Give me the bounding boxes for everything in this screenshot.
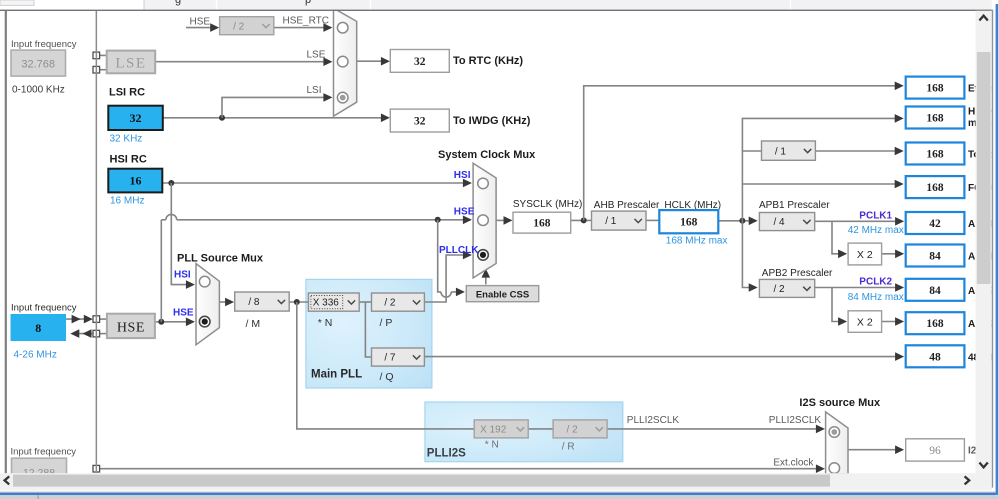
PLLI2S panel	[425, 402, 623, 462]
oscillator LSI RC 32	[108, 106, 163, 130]
wire HSE branch to Enable CSS with hop	[438, 220, 441, 292]
wire LSE pin connections	[99, 54, 106, 56]
svg-text:4-26 MHz: 4-26 MHz	[14, 350, 57, 361]
wire HCLK riser to AHB bus clock	[742, 118, 899, 220]
svg-text:LSE: LSE	[115, 55, 146, 71]
svg-text:PLLI2SCLK: PLLI2SCLK	[627, 415, 680, 426]
wire PLLQ 48MHz clock	[424, 356, 900, 358]
box LSE input frequency 32.768	[11, 50, 66, 76]
oscillator HSE	[107, 314, 155, 338]
pin connector LSE bottom	[93, 66, 100, 73]
svg-text:LSI RC: LSI RC	[109, 87, 145, 99]
divider /P	[372, 293, 425, 311]
box I2S clock value 96	[906, 439, 965, 461]
svg-text:32: 32	[130, 111, 142, 125]
wire HSE_RTC divider to RTC mux	[274, 27, 328, 29]
wire AHB prescaler to HCLK	[646, 219, 659, 221]
node HCLK branch	[739, 218, 745, 224]
divider AHB prescaler /1	[592, 211, 647, 230]
divider APB2 prescaler /2	[759, 279, 814, 297]
svg-text:/ Q: / Q	[380, 371, 394, 383]
svg-text:HSI: HSI	[454, 170, 471, 181]
box AHB bus clock value 168	[906, 107, 965, 129]
svg-text:HSI: HSI	[174, 270, 191, 281]
wire PCLK2 to APB2 timer multiplier	[832, 288, 843, 322]
svg-text:84: 84	[929, 285, 941, 297]
svg-text:/ R: / R	[562, 441, 575, 452]
wire PLLCLK to system clock mux	[424, 255, 466, 302]
wire LSI riser to RTC mux	[222, 97, 328, 117]
pin connector Ext.clock	[93, 465, 100, 472]
box APB1 periph clock value 42	[906, 212, 965, 234]
node PLL N input branch	[294, 299, 300, 305]
wire Enable CSS to mux	[485, 273, 487, 285]
wire system clock mux output	[496, 219, 508, 221]
wire HSE stub to HSE_RTC divider	[186, 27, 215, 29]
radio HSE_RTC input	[337, 22, 348, 33]
chrome: right window edge	[992, 0, 999, 499]
box To IWDG value 32	[390, 109, 449, 132]
svg-text:/ M: / M	[246, 318, 261, 330]
wire HSI riser to PLL source mux	[171, 183, 190, 285]
divider PLLI2S /R	[553, 420, 607, 438]
svg-text:APB2 Prescaler: APB2 Prescaler	[762, 268, 833, 279]
radio SYS PLLCLK input selected	[478, 250, 489, 261]
svg-text:42: 42	[929, 218, 941, 230]
svg-text:Input frequency: Input frequency	[11, 302, 77, 313]
svg-text:84 MHz max: 84 MHz max	[848, 292, 904, 303]
box Cortex timer clock value 168	[906, 143, 965, 165]
divider APB1 prescaler /4	[759, 213, 814, 231]
wire PLL source mux output	[219, 301, 230, 303]
svg-text:PLL Source Mux: PLL Source Mux	[177, 252, 264, 264]
oscillator LSE	[107, 51, 156, 74]
svg-text:AHB Prescaler: AHB Prescaler	[594, 200, 660, 211]
wire SYSCLK to Ethernet PTP	[584, 86, 900, 221]
svg-text:Input frequency: Input frequency	[11, 447, 77, 458]
radio I2S PLLI2SCLK input selected	[829, 427, 840, 438]
svg-text:168: 168	[533, 218, 551, 230]
box APB2 periph clock value 84	[906, 279, 965, 301]
svg-text:32: 32	[414, 116, 426, 128]
svg-text:Input frequency: Input frequency	[11, 39, 77, 50]
svg-text:Main PLL: Main PLL	[311, 368, 362, 380]
divider /Q	[372, 348, 425, 366]
multiplier PLLI2S xN X192	[474, 420, 528, 438]
svg-text:32 KHz: 32 KHz	[110, 134, 143, 145]
wire SYSCLK to AHB prescaler	[571, 219, 592, 221]
wire APB1 timer multiplier output	[882, 253, 900, 255]
wire HSE input frequency arrows	[66, 318, 84, 320]
svg-text:Ext.clock: Ext.clock	[773, 457, 814, 468]
wire RTC mux output	[357, 60, 386, 62]
box SYSCLK value 168	[513, 212, 571, 233]
box APB2 timer clock value 168	[906, 312, 965, 334]
box APB1 timer clock value 84	[906, 245, 965, 267]
svg-text:16: 16	[130, 174, 142, 188]
svg-text:X 336: X 336	[313, 298, 340, 309]
chrome: horizontal scrollbar	[0, 473, 999, 487]
wire APB2 prescaler output PCLK2	[815, 287, 900, 289]
svg-text:84: 84	[929, 251, 941, 263]
svg-text:/ 1: / 1	[775, 146, 787, 157]
multiplier APB1 timers X2	[848, 243, 882, 265]
svg-text:HSI RC: HSI RC	[110, 154, 147, 166]
svg-text:8: 8	[35, 321, 41, 335]
svg-text:/ P: / P	[380, 317, 393, 329]
multiplier APB2 timers X2	[848, 311, 882, 333]
wire LSE to RTC mux	[155, 61, 328, 63]
chrome: vertical scrollbar	[976, 11, 992, 473]
svg-text:48: 48	[929, 351, 941, 363]
svg-text:16 MHz: 16 MHz	[110, 196, 144, 207]
svg-text:g: g	[175, 0, 181, 6]
svg-text:168: 168	[926, 83, 944, 95]
mux PLL source mux	[196, 264, 219, 345]
wire HCLK output	[719, 220, 754, 222]
svg-text:PCLK1: PCLK1	[859, 210, 892, 221]
wire /M output	[289, 301, 308, 303]
wire APB2 timer multiplier output	[882, 321, 900, 323]
wire HSE to system clock mux with hop	[161, 219, 166, 221]
node HSE branch	[158, 319, 164, 325]
svg-text:PLLI2SCLK: PLLI2SCLK	[769, 415, 822, 426]
svg-text:/ 2: / 2	[773, 284, 785, 295]
svg-text:To RTC (KHz): To RTC (KHz)	[453, 55, 523, 67]
svg-text:p: p	[305, 0, 311, 6]
wire HCLK riser to APB2 prescaler	[742, 221, 753, 288]
svg-text:/ 8: / 8	[248, 297, 260, 308]
divider /M	[235, 292, 290, 311]
node LSI branch	[219, 115, 225, 121]
box HSE input frequency 8	[11, 315, 66, 341]
wire Ext.clock to I2S mux	[99, 468, 820, 470]
wire I2S mux output	[848, 449, 900, 451]
box HCLK value 168	[659, 210, 718, 233]
svg-text:96: 96	[929, 445, 941, 457]
pin connector HSE top	[93, 316, 100, 323]
wire LSI to IWDG	[163, 117, 386, 119]
svg-text:HSE_RTC: HSE_RTC	[283, 16, 330, 27]
wire HCLK to FCLK	[742, 183, 899, 185]
svg-text:* N: * N	[318, 317, 333, 329]
svg-text:HSE: HSE	[117, 321, 145, 336]
svg-text:0-1000 KHz: 0-1000 KHz	[12, 85, 65, 96]
radio PLL HSE input selected	[199, 316, 210, 327]
divider HSE_RTC /2	[220, 17, 274, 35]
chrome: viewport borders	[0, 10, 993, 11]
box To RTC value 32	[390, 50, 449, 73]
svg-text:LSI: LSI	[307, 85, 322, 96]
box Ethernet PTP clock value 168	[906, 77, 965, 99]
wire PLLI2SCLK to I2S mux	[607, 428, 821, 430]
Main PLL panel	[306, 279, 432, 388]
radio LSE input	[337, 56, 348, 67]
svg-text:42 MHz max: 42 MHz max	[848, 225, 904, 236]
svg-text:/ 2: / 2	[567, 425, 579, 436]
button Enable CSS	[466, 286, 538, 302]
pin connector LSE top	[93, 52, 100, 59]
svg-text:/ 2: / 2	[233, 21, 245, 32]
chrome: bottom strip	[0, 488, 992, 491]
svg-text:32.768: 32.768	[21, 59, 55, 71]
svg-text:SYSCLK (MHz): SYSCLK (MHz)	[513, 199, 582, 210]
wire cortex divider to cortex timer	[815, 150, 899, 152]
box I2S input frequency 12.288	[12, 458, 67, 475]
svg-text:LSE: LSE	[307, 50, 326, 61]
wire PLLI2S N to R divider	[528, 428, 553, 430]
radio I2S Ext.clock input	[829, 463, 840, 474]
svg-text:X 2: X 2	[857, 249, 873, 261]
oscillator HSI RC 16	[108, 169, 162, 193]
multiplier *N X336	[308, 293, 359, 311]
node HSI branch	[168, 180, 174, 186]
svg-text:HSE: HSE	[454, 207, 475, 218]
svg-text:PLLCLK: PLLCLK	[439, 245, 479, 256]
wire N to Q divider	[365, 302, 371, 357]
svg-text:/ 1: / 1	[605, 216, 617, 227]
svg-text:PCLK2: PCLK2	[859, 277, 892, 288]
svg-text:System Clock Mux: System Clock Mux	[438, 149, 536, 161]
chrome: tab strip	[0, 0, 999, 10]
pin connector HSE bottom	[93, 330, 100, 337]
svg-text:Enable CSS: Enable CSS	[476, 289, 529, 300]
svg-text:/ 4: / 4	[773, 217, 785, 228]
svg-text:HSE: HSE	[190, 16, 211, 27]
svg-text:/ 2: / 2	[384, 298, 396, 309]
divider cortex /1	[762, 141, 816, 160]
svg-text:168: 168	[926, 182, 944, 194]
radio SYS HSE input	[478, 215, 489, 226]
node SYSCLK branch	[581, 217, 587, 223]
svg-text:I2S source Mux: I2S source Mux	[799, 397, 881, 409]
svg-text:168: 168	[680, 217, 698, 229]
svg-text:* N: * N	[485, 440, 499, 451]
svg-text:HSE: HSE	[173, 308, 194, 319]
svg-text:APB1 Prescaler: APB1 Prescaler	[759, 200, 830, 211]
radio LSI input selected	[337, 92, 348, 103]
radio PLL HSI input	[199, 276, 210, 287]
wire PCLK1 to APB1 timer multiplier	[832, 221, 843, 254]
wire APB1 prescaler output PCLK1	[815, 220, 900, 222]
wire HSE riser	[160, 220, 162, 322]
svg-text:168: 168	[926, 113, 944, 125]
wire HSI to system clock mux	[163, 182, 467, 184]
wire HSE to PLL source mux	[155, 321, 191, 323]
radio SYS HSI input	[478, 178, 489, 189]
svg-text:PLLI2S: PLLI2S	[427, 447, 466, 459]
svg-text:X 192: X 192	[480, 425, 507, 436]
svg-text:168 MHz max: 168 MHz max	[666, 235, 728, 246]
wire N to P divider	[359, 301, 371, 303]
mux system clock mux	[473, 163, 496, 278]
box 48MHz clock value 48	[906, 345, 965, 367]
svg-text:168: 168	[926, 149, 944, 161]
svg-text:168: 168	[926, 318, 944, 330]
wire riser to PLLI2S	[297, 302, 474, 429]
mux I2S source mux	[826, 412, 848, 474]
mux RTC clock mux	[334, 8, 357, 116]
wire HCLK to cortex divider	[742, 150, 761, 152]
svg-text:X 2: X 2	[857, 316, 873, 328]
svg-text:/ 7: / 7	[384, 353, 396, 364]
svg-text:To IWDG (KHz): To IWDG (KHz)	[453, 115, 531, 127]
node HSE CSS branch	[435, 217, 441, 223]
wire HSE pin connections	[99, 318, 107, 320]
box FCLK clock value 168	[906, 176, 965, 198]
svg-text:32: 32	[414, 56, 426, 68]
